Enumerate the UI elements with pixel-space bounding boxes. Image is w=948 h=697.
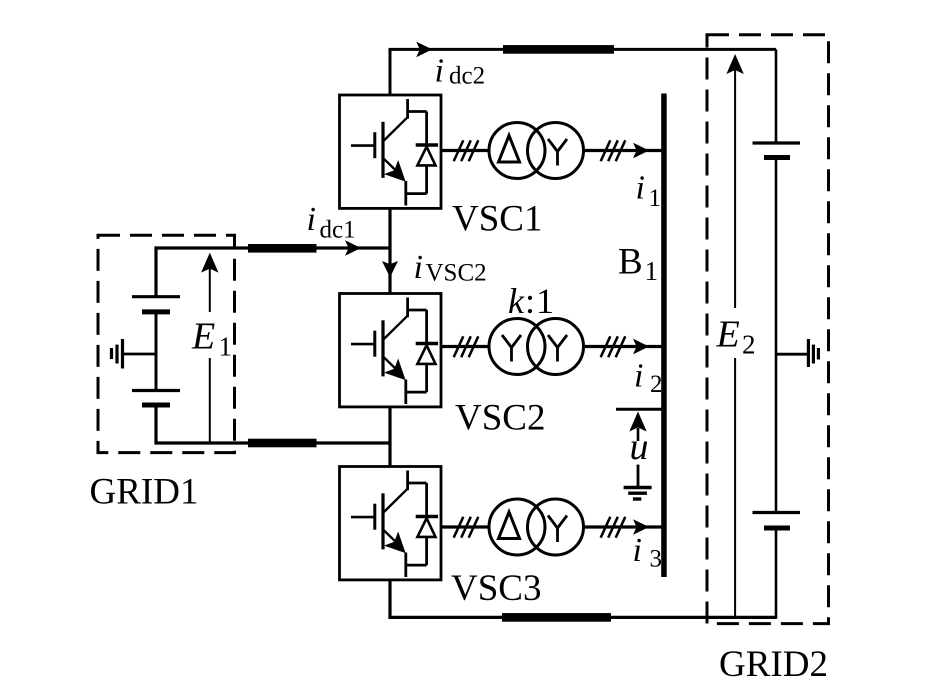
row1 hash right — [601, 140, 626, 161]
row3 wire right — [584, 525, 662, 528]
i_dc1 arrowhead — [345, 240, 361, 256]
svg-text:GRID1: GRID1 — [90, 472, 199, 513]
svg-text:i: i — [435, 53, 444, 90]
GRID2 ground bar 1 — [807, 339, 810, 367]
transformer T2 secondary circle — [528, 319, 584, 375]
svg-text:VSC2: VSC2 — [455, 398, 545, 439]
T1 delta symbol — [499, 136, 520, 163]
GRID1 battery 2 long plate — [132, 389, 180, 392]
u arrow shaft — [637, 428, 640, 441]
top wire arrowhead — [416, 42, 432, 58]
E2 arrow line — [734, 58, 736, 618]
GRID1 ground lead — [123, 353, 156, 356]
i_dc1 cable bar — [248, 244, 317, 253]
GRID1 ground bar 2 — [115, 345, 118, 364]
T3 delta symbol — [499, 512, 520, 539]
E1 label background — [189, 312, 233, 358]
svg-text:i: i — [633, 532, 642, 569]
GRID2 ground bar 3 — [817, 348, 820, 360]
dc mid wire 2 — [388, 406, 391, 466]
transformer T2 primary circle — [489, 319, 545, 375]
T2 wye symbol primary — [502, 335, 521, 362]
GRID1 ground bar 3 — [110, 348, 113, 359]
i_VSC2 arrowhead — [382, 261, 398, 277]
GRID2 battery 2 long plate — [753, 511, 801, 514]
bus B1 bar — [661, 94, 667, 578]
row2 wire right — [584, 345, 662, 348]
svg-text:GRID2: GRID2 — [719, 644, 828, 685]
u ground lead — [637, 465, 640, 486]
top wire — [390, 49, 776, 95]
svg-text:k:1: k:1 — [508, 281, 555, 321]
GRID1 dashed box — [98, 235, 235, 452]
row3 wire left — [442, 525, 489, 528]
row1 arrowhead into bus — [633, 143, 649, 159]
svg-text:i: i — [307, 201, 316, 238]
node u tick — [616, 408, 662, 411]
transformer T1 primary circle — [489, 123, 545, 179]
GRID1 top internal wire — [156, 248, 390, 297]
E2 label background — [713, 308, 757, 358]
svg-text:2: 2 — [650, 371, 663, 398]
T1 wye symbol — [548, 139, 567, 166]
svg-text:u: u — [630, 426, 649, 468]
u ground bar 2 — [628, 492, 647, 495]
row2 hash left — [454, 336, 479, 357]
T3 wye symbol — [548, 516, 567, 543]
svg-text:VSC2: VSC2 — [426, 260, 487, 287]
VSC1 converter — [340, 95, 442, 208]
VSC3 converter — [340, 467, 442, 580]
GRID1 bottom cable bar — [248, 439, 317, 448]
GRID2 battery 1 short plate — [764, 155, 790, 160]
row1 hash left — [454, 140, 479, 161]
row2 hash right — [601, 336, 626, 357]
row3 hash right — [601, 517, 626, 538]
bottom wire — [390, 579, 776, 618]
transformer T3 primary circle — [489, 499, 545, 555]
transformer T1 secondary circle — [528, 123, 584, 179]
u arrowhead — [629, 412, 646, 432]
E1 arrow line — [209, 256, 211, 442]
svg-text:VSC1: VSC1 — [452, 199, 542, 240]
svg-text:2: 2 — [742, 330, 756, 360]
svg-text:3: 3 — [650, 546, 663, 573]
svg-text:E: E — [191, 316, 215, 358]
GRID2 top internal wire — [775, 49, 778, 143]
svg-text:1: 1 — [649, 185, 662, 212]
VSC2 converter — [340, 294, 442, 407]
transformer T3 secondary circle — [528, 499, 584, 555]
dc mid wire 1 — [388, 208, 391, 293]
GRID1 bottom internal wire — [156, 405, 390, 443]
T2 wye symbol secondary — [548, 335, 567, 362]
svg-text:dc1: dc1 — [320, 217, 356, 244]
svg-text:E: E — [716, 314, 740, 356]
u ground bar 1 — [624, 486, 652, 489]
row2 arrowhead into bus — [633, 339, 649, 355]
svg-text:dc2: dc2 — [449, 63, 485, 90]
GRID2 dashed box — [707, 35, 829, 624]
GRID2 battery 2 short plate — [764, 526, 790, 531]
svg-text:1: 1 — [645, 256, 659, 286]
row3 arrowhead into bus — [633, 519, 649, 535]
GRID2 battery 1 long plate — [753, 141, 801, 144]
E1 arrowhead — [201, 253, 218, 273]
svg-text:i: i — [636, 170, 645, 207]
GRID1 battery 1 long plate — [132, 295, 180, 298]
GRID2 ground lead — [776, 353, 808, 356]
row1 wire left — [441, 149, 489, 152]
GRID1 battery 1 short plate — [142, 309, 170, 314]
u ground bar 3 — [633, 497, 641, 500]
row2 wire left — [441, 345, 489, 348]
svg-text:B: B — [618, 242, 643, 283]
row3 hash left — [454, 517, 479, 538]
bottom wire cable bar — [502, 613, 611, 622]
GRID2 bottom internal wire — [775, 528, 778, 619]
GRID1 battery 2 short plate — [142, 403, 170, 408]
GRID2 mid wire — [775, 158, 778, 513]
E2 arrowhead — [726, 54, 743, 74]
GRID2 ground bar 2 — [812, 345, 815, 364]
top wire cable bar — [503, 45, 614, 54]
svg-text:i: i — [634, 358, 643, 395]
row1 wire right — [584, 149, 662, 152]
svg-text:1: 1 — [219, 332, 233, 362]
svg-text:i: i — [414, 249, 423, 286]
svg-text:VSC3: VSC3 — [451, 568, 541, 609]
GRID1 ground bar 1 — [121, 339, 124, 369]
GRID1 mid wire — [155, 312, 158, 391]
